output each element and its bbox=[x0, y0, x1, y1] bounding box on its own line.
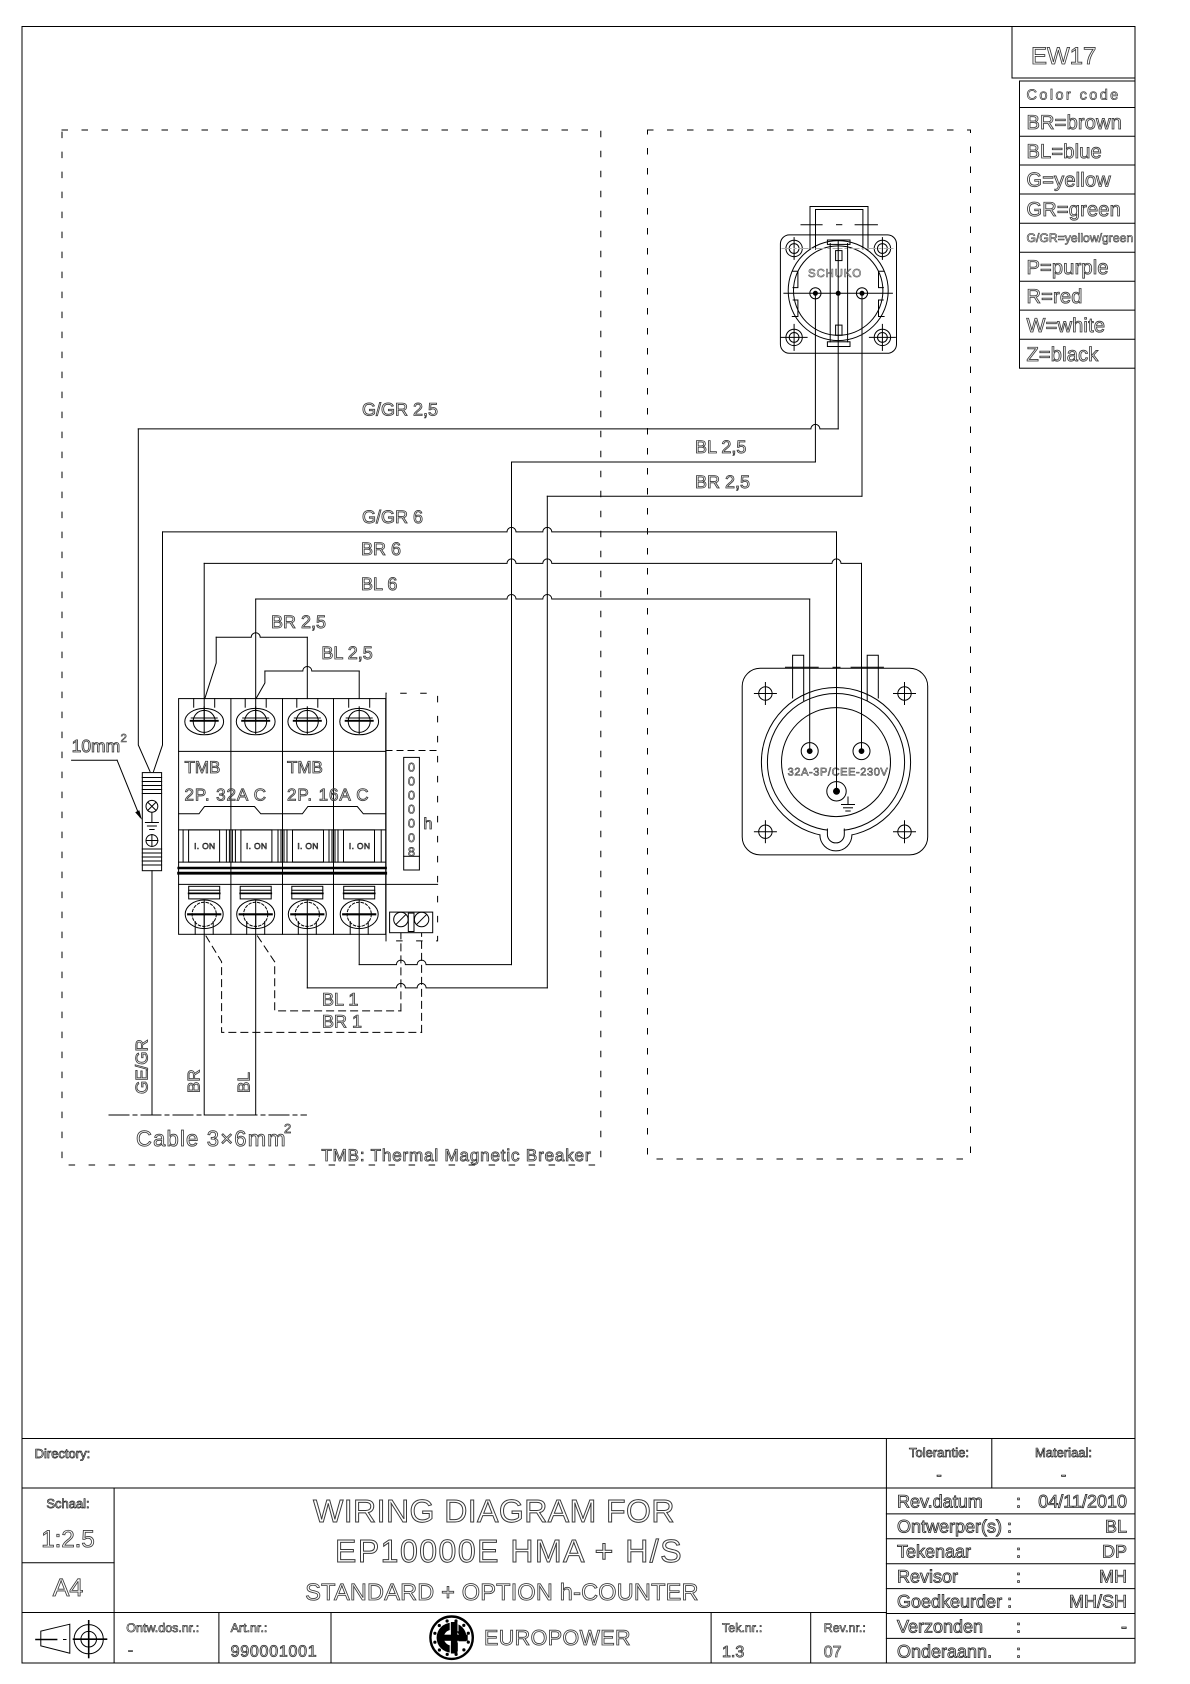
svg-text:I. ON: I. ON bbox=[297, 841, 318, 851]
wire BR 2,5 lower run to breaker pole 3 bbox=[307, 983, 547, 988]
10mm2 size label with leader arrow bbox=[72, 733, 142, 820]
hour counter digits 0000008 bbox=[408, 761, 415, 859]
svg-text::: : bbox=[1016, 1567, 1021, 1587]
svg-text:-: - bbox=[128, 1642, 133, 1659]
wire BL 6 riser to breaker pole 2 bbox=[255, 599, 257, 721]
breaker bottom clamp pole 3 bbox=[292, 886, 323, 899]
svg-text:0: 0 bbox=[408, 803, 415, 817]
breaker toggle window outline bbox=[179, 807, 386, 814]
breaker block TMB body bbox=[179, 699, 386, 935]
SCHUKO pin L bbox=[810, 288, 821, 299]
svg-text:R=red: R=red bbox=[1027, 286, 1083, 308]
wire G/GR 6 left bus vertical bbox=[154, 532, 163, 772]
svg-text:Tolerantie:: Tolerantie: bbox=[909, 1445, 969, 1460]
earth terminal ground symbol bbox=[145, 813, 158, 830]
SCHUKO screw hole top-right bbox=[874, 238, 890, 260]
CEE mounting tab right bbox=[867, 655, 878, 700]
title block Tek.nr field bbox=[722, 1621, 762, 1661]
breaker top terminal pole 2 bbox=[236, 699, 275, 735]
svg-text:I. ON: I. ON bbox=[194, 841, 215, 851]
CEE pin earth bbox=[827, 782, 846, 801]
breaker bottom terminal pole 3 bbox=[288, 900, 326, 934]
title block revision rows bbox=[897, 1492, 1127, 1662]
svg-text:Goedkeurder :: Goedkeurder : bbox=[897, 1592, 1012, 1612]
hour counter P1 dashed housing bbox=[386, 693, 438, 941]
svg-text:BR 6: BR 6 bbox=[361, 539, 401, 559]
svg-text:07: 07 bbox=[824, 1644, 842, 1661]
breaker top terminal pole 1 bbox=[185, 699, 224, 735]
wire G/GR 2,5 riser to SCHUKO earth bbox=[837, 240, 839, 429]
wire BL 2,5 breaker pole 4 stub bbox=[358, 914, 360, 964]
wire BR 2,5 breaker pole 3 stub bbox=[306, 914, 308, 988]
svg-text:Ontw.dos.nr.:: Ontw.dos.nr.: bbox=[126, 1621, 199, 1635]
svg-text:MH/SH: MH/SH bbox=[1069, 1592, 1127, 1612]
wire BR cable tail from pole 1 bbox=[203, 914, 205, 1115]
title block Ontw.dos.nr field bbox=[126, 1621, 199, 1659]
breaker bottom terminal pole 4 bbox=[340, 900, 378, 934]
svg-text:Art.nr.:: Art.nr.: bbox=[231, 1621, 268, 1635]
SCHUKO screw hole bottom-left bbox=[781, 324, 807, 350]
svg-text:1.3: 1.3 bbox=[722, 1644, 744, 1661]
wire BR 2,5 SCHUKO leg bbox=[861, 293, 863, 496]
title block grid lines bbox=[22, 1439, 1135, 1664]
svg-text:TMB: Thermal Magnetic Breaker: TMB: Thermal Magnetic Breaker bbox=[321, 1146, 591, 1165]
breaker top terminal pole 4 bbox=[340, 699, 379, 735]
breaker bottom clamp pole 4 bbox=[344, 886, 375, 899]
svg-text::: : bbox=[1016, 1492, 1021, 1512]
CEE pin L bbox=[801, 743, 818, 760]
svg-text:BR 2,5: BR 2,5 bbox=[271, 612, 326, 632]
svg-text:-: - bbox=[1121, 1617, 1127, 1637]
earth terminal screw upper bbox=[146, 800, 158, 812]
svg-text:BR: BR bbox=[185, 1069, 204, 1093]
CEE body circles bbox=[761, 688, 910, 837]
svg-text:0: 0 bbox=[408, 789, 415, 803]
svg-text:EP10000E HMA + H/S: EP10000E HMA + H/S bbox=[335, 1533, 683, 1569]
svg-text::: : bbox=[1016, 1642, 1021, 1662]
CEE earth symbol bbox=[842, 797, 855, 811]
breaker label TMB 32A bbox=[185, 758, 267, 805]
CEE screw hole bottom-right bbox=[894, 821, 916, 843]
svg-text:Revisor: Revisor bbox=[897, 1567, 958, 1587]
svg-text:Rev.datum: Rev.datum bbox=[897, 1492, 983, 1512]
wire BR 6 horizontal run bbox=[204, 559, 861, 564]
svg-text:A4: A4 bbox=[53, 1574, 84, 1602]
EUROPOWER logo emblem bbox=[430, 1617, 472, 1659]
svg-text:BR=brown: BR=brown bbox=[1027, 112, 1123, 134]
svg-text:BL 2,5: BL 2,5 bbox=[695, 437, 746, 457]
svg-text:Onderaann.: Onderaann. bbox=[897, 1642, 992, 1662]
wire BR 6 drop to CEE N pin bbox=[861, 563, 863, 751]
svg-text:I. ON: I. ON bbox=[246, 841, 267, 851]
breaker bottom clamp pole 1 bbox=[189, 886, 220, 899]
svg-text:2P. 16A C: 2P. 16A C bbox=[287, 786, 369, 805]
wire BL 2,5 drop bbox=[511, 462, 513, 965]
svg-text:GR=green: GR=green bbox=[1027, 199, 1121, 221]
svg-text:G/GR 2,5: G/GR 2,5 bbox=[362, 400, 438, 420]
svg-text:Z=black: Z=black bbox=[1027, 344, 1100, 366]
wire BL 6 drop to CEE L pin bbox=[809, 599, 811, 751]
svg-text:Cable 3×6mm: Cable 3×6mm bbox=[136, 1126, 287, 1151]
earth terminal block bbox=[142, 773, 161, 871]
wire BL cable tail from pole 2 bbox=[255, 914, 257, 1115]
breaker bottom terminal pole 1 bbox=[185, 900, 223, 934]
svg-text:BL=blue: BL=blue bbox=[1027, 141, 1102, 163]
title block Tolerantie field bbox=[909, 1445, 969, 1484]
svg-text:0: 0 bbox=[408, 775, 415, 789]
svg-text:BL: BL bbox=[235, 1072, 254, 1093]
CEE screw hole bottom-left bbox=[754, 821, 776, 843]
wire G/GR 2,5 horizontal run bbox=[138, 424, 838, 429]
title block Materiaal field bbox=[1035, 1445, 1092, 1484]
svg-text:0: 0 bbox=[408, 817, 415, 831]
svg-text:Schaal:: Schaal: bbox=[46, 1496, 89, 1511]
wire BR 2,5 horizontal run bbox=[547, 495, 862, 497]
svg-text::: : bbox=[1016, 1617, 1021, 1637]
svg-text:EW17: EW17 bbox=[1031, 43, 1096, 70]
svg-text:8: 8 bbox=[408, 845, 415, 859]
label Cable 3x6mm2 bbox=[136, 1121, 291, 1151]
SCHUKO pin N bbox=[856, 288, 867, 299]
CEE keyway notch bbox=[820, 828, 852, 851]
svg-text:2: 2 bbox=[121, 733, 127, 745]
breaker label TMB 16A bbox=[287, 758, 369, 805]
svg-text:SCHUKO: SCHUKO bbox=[808, 268, 862, 280]
svg-text::: : bbox=[1016, 1542, 1021, 1562]
breaker lower section line bbox=[179, 883, 438, 885]
wire G/GR 6 horizontal run bbox=[163, 527, 837, 532]
hour counter terminal screw left bbox=[394, 912, 408, 926]
title block Rev.nr field bbox=[824, 1621, 866, 1661]
wire BL 2,5 SCHUKO leg bbox=[814, 293, 816, 462]
hour counter terminal box bbox=[390, 912, 433, 933]
wire GE/GR cable tail bbox=[151, 871, 153, 1115]
CEE screw hole top-right bbox=[894, 683, 916, 705]
CEE socket X1 mounting plate bbox=[742, 668, 928, 855]
wire G/GR 2,5 left bus vertical bbox=[138, 429, 150, 772]
SCHUKO earth clip left bbox=[792, 271, 798, 316]
cable boundary dash-dot line bbox=[109, 1114, 306, 1116]
SCHUKO pin earth center bbox=[836, 291, 840, 295]
svg-text:h: h bbox=[424, 816, 433, 833]
SCHUKO center column bbox=[827, 240, 850, 347]
CEE pin N bbox=[853, 743, 870, 760]
right dashed enclosure box bbox=[648, 130, 971, 1159]
SCHUKO socket U2 mounting plate bbox=[780, 235, 896, 353]
svg-text:Verzonden: Verzonden bbox=[897, 1617, 983, 1637]
svg-text:-: - bbox=[936, 1467, 941, 1484]
earth terminal screw lower bbox=[146, 835, 158, 847]
CEE mounting tab left bbox=[793, 655, 804, 700]
SCHUKO mounting tab bbox=[801, 207, 877, 250]
hour counter digit window bbox=[404, 757, 420, 870]
breaker terminal section line bbox=[179, 750, 386, 752]
svg-text:G/GR 6: G/GR 6 bbox=[362, 507, 423, 527]
CEE screw hole top-left bbox=[754, 683, 776, 705]
svg-text:BL 1: BL 1 bbox=[322, 990, 358, 1010]
svg-text:04/11/2010: 04/11/2010 bbox=[1038, 1492, 1127, 1512]
left dashed enclosure box bbox=[62, 130, 601, 1165]
breaker top terminal pole 3 bbox=[288, 699, 327, 735]
svg-text:BR 1: BR 1 bbox=[322, 1012, 362, 1032]
svg-text:G=yellow: G=yellow bbox=[1027, 170, 1112, 192]
color code legend table bbox=[1020, 81, 1136, 368]
svg-text:STANDARD + OPTION h-COUNTER: STANDARD + OPTION h-COUNTER bbox=[305, 1579, 698, 1605]
CEE tab centerline bbox=[786, 666, 884, 668]
svg-text:I. ON: I. ON bbox=[349, 841, 370, 851]
svg-text:Tek.nr.:: Tek.nr.: bbox=[722, 1621, 762, 1635]
svg-text:10mm: 10mm bbox=[72, 736, 121, 756]
svg-text:1:2.5: 1:2.5 bbox=[41, 1526, 94, 1553]
svg-text:Ontwerper(s) :: Ontwerper(s) : bbox=[897, 1517, 1012, 1537]
EW17 drawing-number box bbox=[1012, 27, 1135, 79]
svg-text:P=purple: P=purple bbox=[1027, 257, 1109, 279]
svg-text:2P. 32A C: 2P. 32A C bbox=[185, 786, 267, 805]
projection method symbol bbox=[36, 1621, 107, 1658]
wire BR 6 riser to breaker pole 1 bbox=[203, 563, 205, 721]
svg-text:Directory:: Directory: bbox=[35, 1446, 91, 1461]
svg-text:Color code: Color code bbox=[1027, 87, 1121, 103]
breaker DIN rail clip lines bbox=[179, 868, 386, 873]
breaker switch row bbox=[179, 830, 386, 862]
wire BL 6 horizontal run bbox=[256, 595, 810, 600]
wire BL 2,5 lower run to breaker pole 4 bbox=[359, 960, 511, 965]
wire BR 1 dashed option link bbox=[206, 933, 422, 1032]
svg-text:TMB: TMB bbox=[185, 758, 221, 777]
svg-text:0: 0 bbox=[408, 831, 415, 845]
title block Art.nr field bbox=[231, 1621, 318, 1661]
svg-text:W=white: W=white bbox=[1027, 315, 1106, 337]
breaker bottom terminal pole 2 bbox=[237, 900, 275, 934]
svg-text:BL: BL bbox=[1105, 1517, 1127, 1537]
svg-text:2: 2 bbox=[284, 1121, 291, 1136]
svg-text:-: - bbox=[1061, 1467, 1066, 1484]
SCHUKO screw hole top-left bbox=[786, 238, 802, 260]
SCHUKO screw centerline dashed bbox=[782, 248, 895, 250]
wire BL 2,5 horizontal run bbox=[512, 461, 816, 463]
wire BL 1 dashed option link bbox=[258, 933, 401, 1011]
svg-text:TMB: TMB bbox=[287, 758, 323, 777]
SCHUKO body circles bbox=[788, 241, 888, 341]
wire BL 2,5 jumper pole2 to pole4 bbox=[256, 667, 359, 699]
svg-text:BL 6: BL 6 bbox=[361, 574, 397, 594]
SCHUKO earth clip right bbox=[879, 271, 885, 316]
svg-text:MH: MH bbox=[1099, 1567, 1127, 1587]
breaker bottom clamp pole 2 bbox=[240, 886, 271, 899]
svg-text:G/GR=yellow/green: G/GR=yellow/green bbox=[1027, 231, 1134, 245]
hour counter terminal screw right bbox=[414, 912, 428, 926]
breaker pole dividers bbox=[231, 699, 334, 935]
svg-text:Rev.nr.:: Rev.nr.: bbox=[824, 1621, 866, 1635]
svg-text:WIRING DIAGRAM FOR: WIRING DIAGRAM FOR bbox=[313, 1493, 675, 1529]
wire BR 2,5 drop bbox=[546, 496, 548, 988]
svg-text:32A-3P/CEE-230V: 32A-3P/CEE-230V bbox=[788, 767, 889, 779]
svg-text:BR 2,5: BR 2,5 bbox=[695, 472, 750, 492]
svg-text:EUROPOWER: EUROPOWER bbox=[484, 1626, 631, 1650]
svg-text:0: 0 bbox=[408, 761, 415, 775]
svg-text:DP: DP bbox=[1102, 1542, 1127, 1562]
svg-text:GE/GR: GE/GR bbox=[133, 1039, 152, 1094]
svg-text:990001001: 990001001 bbox=[231, 1644, 318, 1661]
svg-text:Materiaal:: Materiaal: bbox=[1035, 1445, 1092, 1460]
title block Schaal field bbox=[41, 1496, 94, 1553]
svg-text:BL 2,5: BL 2,5 bbox=[321, 643, 372, 663]
svg-text:Tekenaar: Tekenaar bbox=[897, 1542, 971, 1562]
wire G/GR 6 drop to CEE earth bbox=[836, 532, 838, 791]
SCHUKO pin centerline bbox=[784, 292, 893, 294]
wire BR 2,5 jumper pole1 to pole3 bbox=[205, 633, 307, 699]
SCHUKO screw hole bottom-right bbox=[869, 324, 895, 350]
